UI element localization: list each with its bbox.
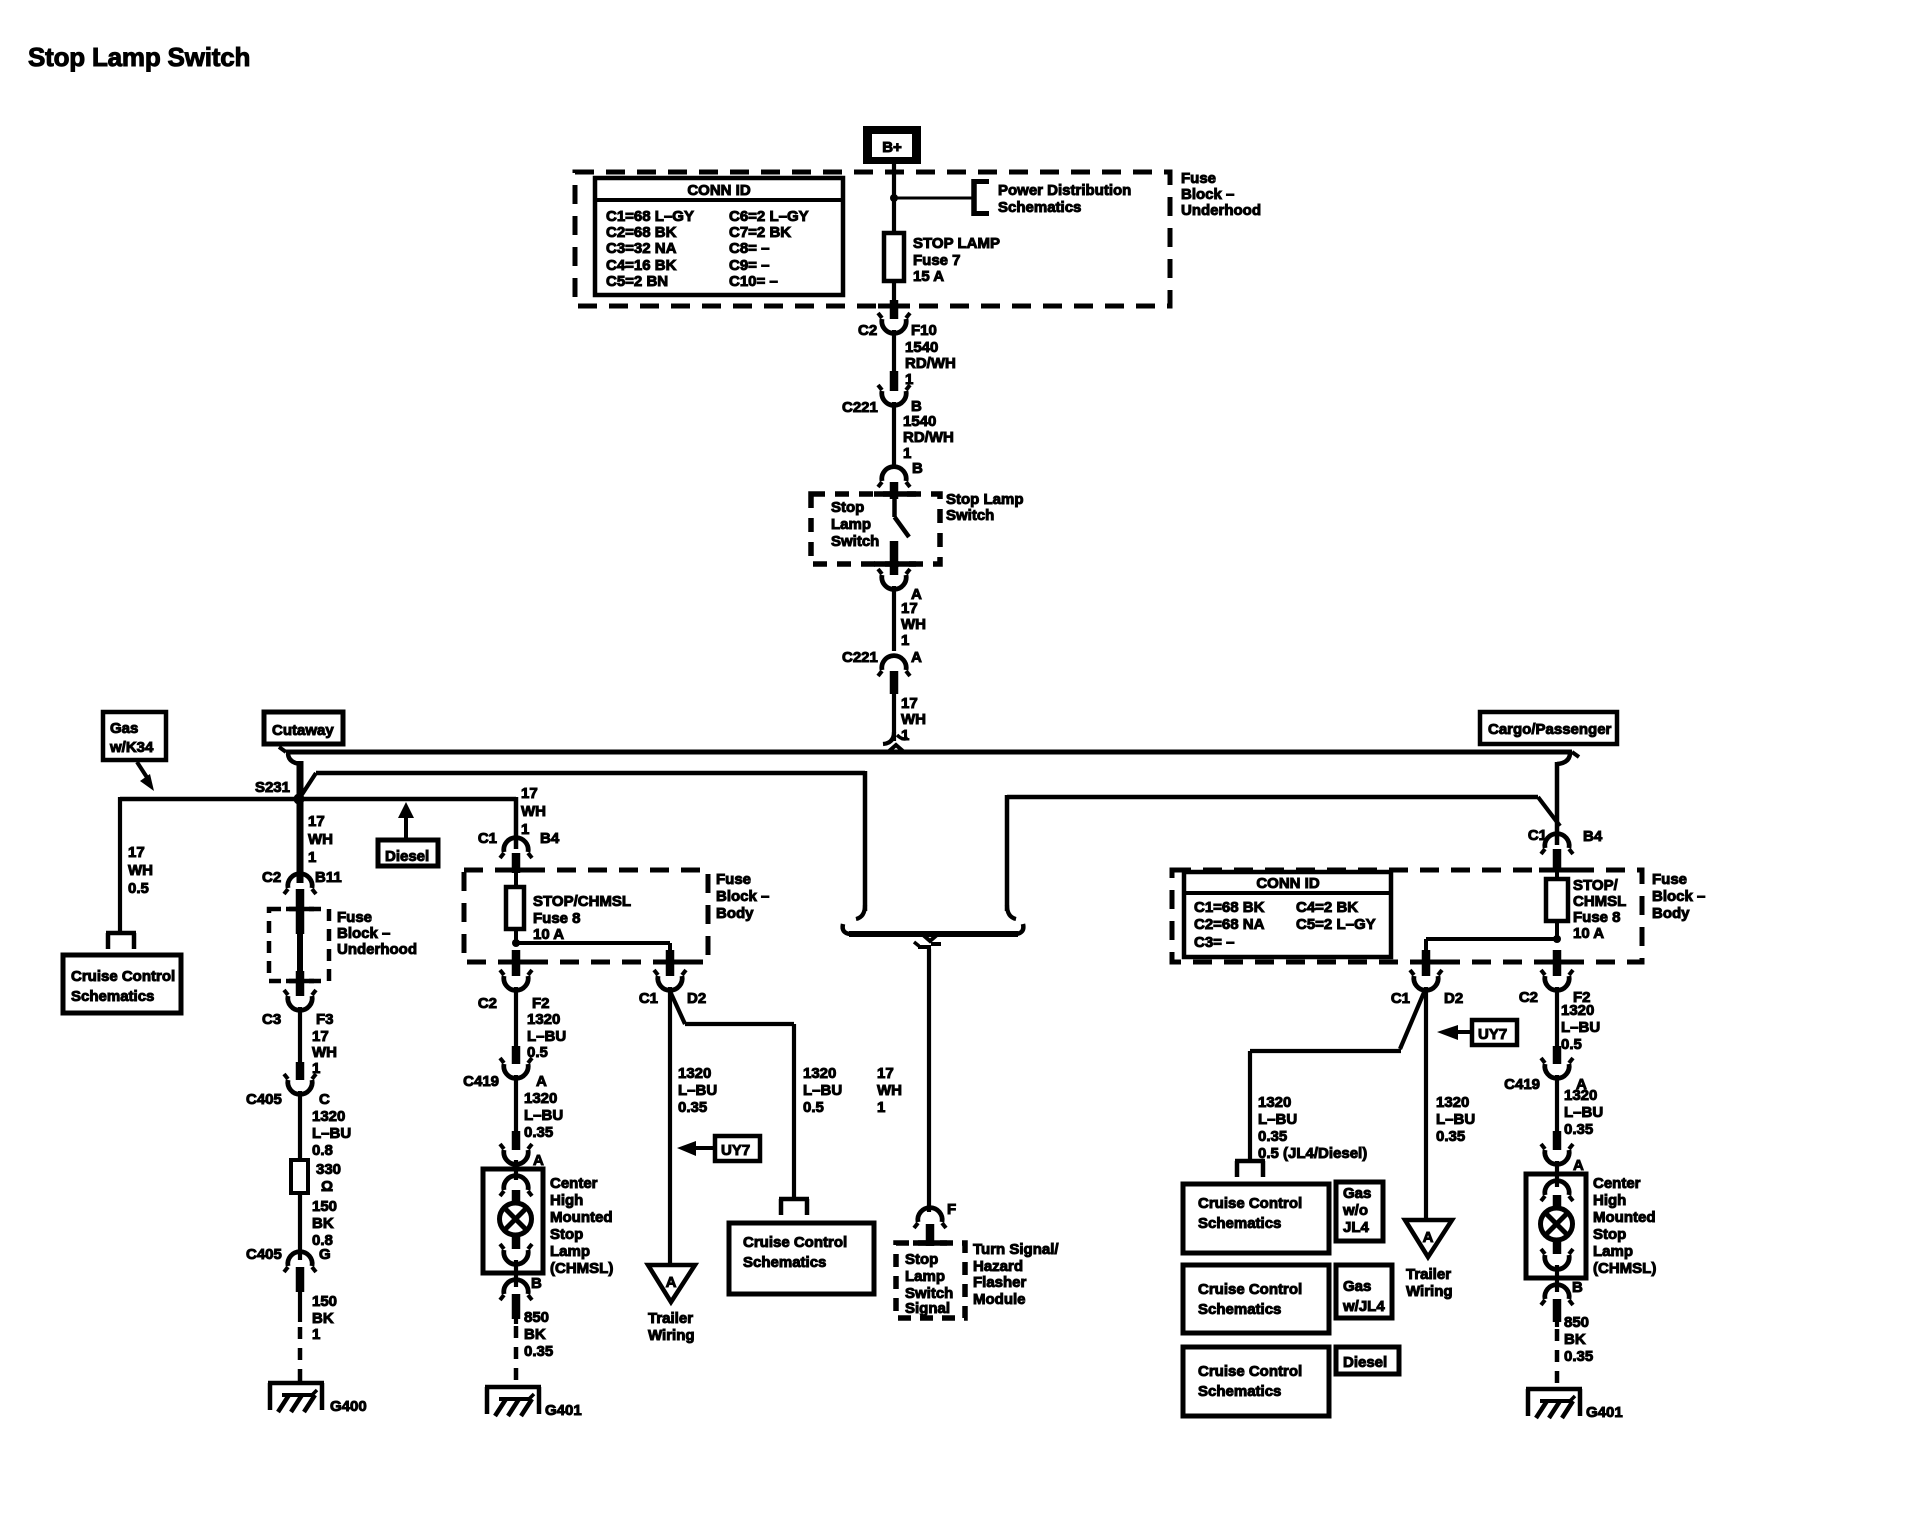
CHMSL label left xyxy=(550,1175,613,1277)
svg-text:Cruise Control: Cruise Control xyxy=(71,968,175,985)
svg-text:1: 1 xyxy=(901,632,909,649)
svg-text:CONN ID: CONN ID xyxy=(687,182,751,199)
cargo/passenger tag box xyxy=(1480,712,1617,744)
svg-text:RD/WH: RD/WH xyxy=(905,355,956,372)
svg-text:Stop: Stop xyxy=(1593,1226,1626,1243)
svg-text:L–BU: L–BU xyxy=(1436,1111,1475,1128)
svg-text:L–BU: L–BU xyxy=(1564,1104,1603,1121)
bus3 drop to splice xyxy=(1007,795,1016,919)
CHMSL pin B right xyxy=(1541,1279,1583,1322)
svg-text:G401: G401 xyxy=(545,1402,582,1419)
svg-text:1320: 1320 xyxy=(678,1065,711,1082)
fuse block body dashed box left xyxy=(464,870,708,962)
svg-text:1540: 1540 xyxy=(903,413,936,430)
connector C405 pin G xyxy=(246,1246,331,1292)
stop lamp switch signal dashed box xyxy=(896,1243,965,1318)
cutaway tag box xyxy=(264,712,343,744)
svg-text:High: High xyxy=(550,1192,583,1209)
svg-text:0.35: 0.35 xyxy=(524,1343,553,1360)
svg-text:Stop: Stop xyxy=(831,499,864,516)
wire left branch to cruise control xyxy=(120,797,153,933)
svg-text:CONN ID: CONN ID xyxy=(1256,875,1320,892)
svg-text:C2: C2 xyxy=(858,322,877,339)
connector C2 pin F2 right xyxy=(1519,950,1591,1006)
svg-text:1: 1 xyxy=(521,821,529,838)
wire 1540 RD/WH xyxy=(894,330,956,388)
cruise control reference bracket mid xyxy=(779,1199,809,1215)
svg-text:C2=68 BK: C2=68 BK xyxy=(606,224,677,241)
svg-text:WH: WH xyxy=(308,831,333,848)
svg-text:JL4: JL4 xyxy=(1343,1219,1370,1236)
svg-text:B: B xyxy=(531,1275,542,1292)
bus1 left hook xyxy=(279,747,301,764)
svg-text:Wiring: Wiring xyxy=(1406,1283,1453,1300)
svg-text:F: F xyxy=(947,1201,956,1218)
wire label 17 WH 1 at S231 xyxy=(308,813,333,866)
diesel tag box right xyxy=(1336,1347,1399,1374)
svg-text:Cruise Control: Cruise Control xyxy=(743,1234,847,1251)
svg-text:Fuse: Fuse xyxy=(337,909,372,926)
svg-text:C3: C3 xyxy=(262,1011,281,1028)
power distribution schematics reference bracket xyxy=(972,179,1131,216)
svg-text:0.35: 0.35 xyxy=(1564,1121,1593,1138)
CONN ID table (underhood) xyxy=(595,178,843,295)
svg-text:C4=16 BK: C4=16 BK xyxy=(606,257,677,274)
svg-text:G400: G400 xyxy=(330,1398,367,1415)
CHMSL lamp element left xyxy=(500,1176,533,1287)
svg-text:WH: WH xyxy=(901,711,926,728)
svg-text:A: A xyxy=(533,1152,544,1169)
wire 150 BK 1 xyxy=(300,1292,337,1343)
svg-text:Fuse: Fuse xyxy=(1652,871,1687,888)
svg-text:F2: F2 xyxy=(532,995,550,1012)
svg-text:1320: 1320 xyxy=(527,1011,560,1028)
svg-text:C2: C2 xyxy=(478,995,497,1012)
branch bus line 2 xyxy=(299,773,865,799)
fuse F7 STOP LAMP 15A xyxy=(884,233,1000,285)
svg-text:150: 150 xyxy=(312,1198,337,1215)
svg-text:BK: BK xyxy=(524,1326,546,1343)
svg-text:C: C xyxy=(319,1091,330,1108)
svg-text:S231: S231 xyxy=(255,779,290,796)
ground G401 right xyxy=(1526,1389,1623,1421)
cruise control schematics box right 3 xyxy=(1183,1347,1329,1416)
svg-text:17: 17 xyxy=(308,813,325,830)
connector C2 pin F10 xyxy=(858,300,937,339)
wire D2 diagonal right xyxy=(1250,990,1425,1051)
fuse block body label right xyxy=(1652,871,1705,922)
svg-text:C3= –: C3= – xyxy=(1194,934,1234,951)
svg-text:C4=2 BK: C4=2 BK xyxy=(1296,899,1358,916)
svg-text:1: 1 xyxy=(877,1099,885,1116)
svg-text:Fuse: Fuse xyxy=(716,871,751,888)
svg-text:1320: 1320 xyxy=(1258,1094,1291,1111)
CHMSL lamp box right xyxy=(1526,1174,1586,1278)
connector to CHMSL pin A left xyxy=(500,1131,544,1169)
turn signal hazard flasher module label xyxy=(973,1241,1059,1308)
trailer wiring label right xyxy=(1406,1266,1453,1300)
CHMSL lamp element right xyxy=(1541,1181,1574,1292)
wire to C1 B4 right xyxy=(1555,762,1560,845)
svg-text:Schematics: Schematics xyxy=(71,988,154,1005)
svg-text:Block –: Block – xyxy=(337,925,390,942)
wire hook into bus xyxy=(883,732,908,744)
svg-text:D2: D2 xyxy=(1444,990,1463,1007)
splice merge bar xyxy=(843,924,1024,947)
svg-text:Schematics: Schematics xyxy=(1198,1301,1281,1318)
wire fuse to junction left xyxy=(514,929,518,943)
svg-text:Module: Module xyxy=(973,1291,1026,1308)
svg-text:17: 17 xyxy=(312,1028,329,1045)
title xyxy=(28,42,250,72)
flasher pin F xyxy=(914,1201,956,1246)
svg-text:B4: B4 xyxy=(1583,828,1603,845)
stop lamp switch signal label xyxy=(905,1251,953,1317)
svg-text:C6=2 L–GY: C6=2 L–GY xyxy=(729,208,809,225)
svg-text:C2: C2 xyxy=(262,869,281,886)
svg-text:B11: B11 xyxy=(315,869,342,886)
switch terminal B xyxy=(878,460,923,499)
svg-text:Hazard: Hazard xyxy=(973,1258,1023,1275)
fuse F8 STOP/CHMSL left xyxy=(506,887,631,943)
svg-text:Block –: Block – xyxy=(1181,186,1234,203)
svg-text:WH: WH xyxy=(312,1044,337,1061)
svg-text:10 A: 10 A xyxy=(1573,925,1604,942)
svg-text:Schematics: Schematics xyxy=(743,1254,826,1271)
svg-text:Fuse 7: Fuse 7 xyxy=(913,252,961,269)
svg-text:UY7: UY7 xyxy=(721,1142,750,1159)
svg-text:STOP/CHMSL: STOP/CHMSL xyxy=(533,893,631,910)
svg-text:C8= –: C8= – xyxy=(729,240,769,257)
svg-text:1540: 1540 xyxy=(905,339,938,356)
wire S231 horizontal xyxy=(120,797,516,802)
connector C2 pin B11 xyxy=(262,869,342,934)
svg-text:Schematics: Schematics xyxy=(1198,1215,1281,1232)
switch terminal A xyxy=(878,541,922,603)
wire 17 WH 1 xyxy=(300,1007,337,1077)
svg-text:WH: WH xyxy=(901,616,926,633)
wire S231 thick vertical xyxy=(297,761,304,883)
wire 17 WH 1 to flasher xyxy=(877,949,929,1212)
CHMSL label right xyxy=(1593,1175,1656,1277)
svg-text:Lamp: Lamp xyxy=(550,1243,590,1260)
connector C419 pin A left xyxy=(463,1046,547,1090)
wire 850 BK 0.35 left xyxy=(516,1309,553,1360)
svg-text:L–BU: L–BU xyxy=(803,1082,842,1099)
svg-text:C1: C1 xyxy=(478,830,497,847)
wire 1320 L-BU 0.35 left xyxy=(516,1075,563,1141)
svg-text:STOP/: STOP/ xyxy=(1573,877,1619,894)
gas w/o JL4 tag box xyxy=(1336,1182,1383,1241)
gas w/K34 tag box xyxy=(103,712,166,760)
wire dashed to ground G401 right xyxy=(1555,1329,1560,1386)
svg-text:17: 17 xyxy=(901,600,918,617)
svg-text:C221: C221 xyxy=(842,649,878,666)
fuse block underhood label 2 xyxy=(337,909,417,958)
CONN ID table (body) xyxy=(1184,872,1391,957)
svg-text:1320: 1320 xyxy=(312,1108,345,1125)
svg-text:Underhood: Underhood xyxy=(337,941,417,958)
svg-text:L–BU: L–BU xyxy=(1258,1111,1297,1128)
connector C221 pin A xyxy=(842,649,922,694)
branch bus line 3 xyxy=(1007,797,1560,826)
ground G401 left xyxy=(485,1387,582,1419)
fuse block underhood small dashed box xyxy=(269,909,329,981)
connector C2 pin F2 left xyxy=(478,950,550,1012)
svg-text:Wiring: Wiring xyxy=(648,1327,695,1344)
svg-text:A: A xyxy=(1423,1229,1434,1246)
svg-text:0.35: 0.35 xyxy=(678,1099,707,1116)
svg-text:C2=68 NA: C2=68 NA xyxy=(1194,916,1265,933)
svg-text:Cutaway: Cutaway xyxy=(272,722,334,739)
svg-text:High: High xyxy=(1593,1192,1626,1209)
wire to C1 B4 left xyxy=(516,785,546,849)
svg-text:0.35: 0.35 xyxy=(1436,1128,1465,1145)
svg-text:850: 850 xyxy=(1564,1314,1589,1331)
svg-text:0.5: 0.5 xyxy=(1561,1036,1582,1053)
svg-text:0.35: 0.35 xyxy=(1564,1348,1593,1365)
svg-text:G401: G401 xyxy=(1586,1404,1623,1421)
wire dashed to ground xyxy=(298,1327,303,1382)
svg-text:Signal: Signal xyxy=(905,1300,950,1317)
svg-text:0.35: 0.35 xyxy=(1258,1128,1287,1145)
svg-text:1320: 1320 xyxy=(803,1065,836,1082)
svg-text:Diesel: Diesel xyxy=(1343,1354,1387,1371)
svg-text:Trailer: Trailer xyxy=(1406,1266,1451,1283)
svg-text:Block –: Block – xyxy=(716,888,769,905)
svg-text:A: A xyxy=(536,1073,547,1090)
svg-text:A: A xyxy=(911,649,922,666)
svg-text:330: 330 xyxy=(316,1161,341,1178)
svg-text:Lamp: Lamp xyxy=(1593,1243,1633,1260)
svg-text:A: A xyxy=(666,1274,677,1291)
wire 1540 RD/WH to switch xyxy=(894,402,954,468)
connector C419 pin A right xyxy=(1504,1046,1587,1093)
svg-text:B: B xyxy=(1572,1279,1583,1296)
svg-text:Cruise Control: Cruise Control xyxy=(1198,1195,1302,1212)
wire 17 WH from switch xyxy=(894,586,926,651)
svg-text:(CHMSL): (CHMSL) xyxy=(550,1260,613,1277)
svg-text:Stop Lamp Switch: Stop Lamp Switch xyxy=(28,42,250,72)
svg-text:Flasher: Flasher xyxy=(973,1274,1027,1291)
svg-text:1: 1 xyxy=(903,445,911,462)
svg-text:UY7: UY7 xyxy=(1478,1026,1507,1043)
resistor 330 ohm xyxy=(291,1160,341,1195)
wire drop to C1 D2 left xyxy=(668,943,672,952)
svg-text:Gas: Gas xyxy=(110,720,138,737)
gas w/K34 arrow xyxy=(137,762,154,791)
svg-text:BK: BK xyxy=(312,1215,334,1232)
svg-text:Mounted: Mounted xyxy=(550,1209,612,1226)
trailer wiring triangle right xyxy=(1405,1220,1452,1257)
connector C405 pin C xyxy=(246,1062,330,1108)
cruise control reference bracket left xyxy=(106,933,136,949)
svg-text:C2: C2 xyxy=(1519,989,1538,1006)
svg-text:C5=2 BN: C5=2 BN xyxy=(606,273,668,290)
svg-text:Fuse 8: Fuse 8 xyxy=(533,910,581,927)
wire D2 diagonal to cruise branch xyxy=(669,989,794,1024)
diesel tag box with arrow xyxy=(378,802,438,866)
svg-text:Underhood: Underhood xyxy=(1181,202,1261,219)
svg-text:Trailer: Trailer xyxy=(648,1310,693,1327)
svg-text:Stop Lamp: Stop Lamp xyxy=(946,491,1024,508)
svg-text:STOP LAMP: STOP LAMP xyxy=(913,235,1000,252)
CHMSL pin B left xyxy=(500,1275,542,1319)
svg-text:Diesel: Diesel xyxy=(385,848,429,865)
svg-text:10 A: 10 A xyxy=(533,926,564,943)
svg-text:Stop: Stop xyxy=(905,1251,938,1268)
wire 850 BK 0.35 right xyxy=(1557,1314,1593,1365)
svg-text:150: 150 xyxy=(312,1293,337,1310)
wire dashed to ground G401 left xyxy=(514,1326,519,1384)
svg-text:Switch: Switch xyxy=(831,533,879,550)
switch blade xyxy=(895,499,910,537)
svg-text:C419: C419 xyxy=(1504,1076,1540,1093)
trailer wiring label left xyxy=(648,1310,695,1344)
splice S231 xyxy=(255,779,305,805)
svg-text:C1=68 L–GY: C1=68 L–GY xyxy=(606,208,694,225)
connector to CHMSL pin A right xyxy=(1541,1131,1584,1174)
svg-text:C3=32 NA: C3=32 NA xyxy=(606,240,677,257)
svg-text:Schematics: Schematics xyxy=(998,199,1081,216)
svg-text:1320: 1320 xyxy=(524,1090,557,1107)
svg-text:L–BU: L–BU xyxy=(678,1082,717,1099)
svg-text:Power Distribution: Power Distribution xyxy=(998,182,1131,199)
svg-text:C9= –: C9= – xyxy=(729,257,769,274)
cruise control schematics box right 2 xyxy=(1183,1265,1329,1333)
svg-text:Gas: Gas xyxy=(1343,1185,1371,1202)
connector C1 pin B4 left xyxy=(478,830,560,887)
wire B+ to fuse xyxy=(892,164,896,233)
wire 1320 L-BU 0.35 to trailer left xyxy=(670,987,717,1263)
wire 1320 L-BU 0.35 to trailer right xyxy=(1426,987,1475,1219)
svg-text:17: 17 xyxy=(877,1065,894,1082)
svg-text:C419: C419 xyxy=(463,1073,499,1090)
svg-text:L–BU: L–BU xyxy=(1561,1019,1600,1036)
svg-text:Ω: Ω xyxy=(321,1178,333,1195)
svg-text:1: 1 xyxy=(901,727,909,744)
svg-text:F10: F10 xyxy=(911,322,937,339)
cruise control reference bracket right xyxy=(1235,1161,1265,1177)
gas w/JL4 tag box xyxy=(1336,1265,1392,1318)
svg-text:C405: C405 xyxy=(246,1091,282,1108)
svg-text:Cruise Control: Cruise Control xyxy=(1198,1281,1302,1298)
wire fuse to C2 xyxy=(892,281,896,301)
svg-text:A: A xyxy=(1573,1157,1584,1174)
svg-text:B4: B4 xyxy=(540,830,560,847)
svg-text:Cargo/Passenger: Cargo/Passenger xyxy=(1488,721,1612,738)
svg-text:Gas: Gas xyxy=(1343,1278,1371,1295)
svg-text:Block –: Block – xyxy=(1652,888,1705,905)
svg-text:Switch: Switch xyxy=(946,507,994,524)
svg-text:15 A: 15 A xyxy=(913,268,944,285)
junction below fuse left xyxy=(512,939,670,947)
connector C1 pin D2 left xyxy=(639,950,706,1007)
wire 1320 L-BU 0.8 xyxy=(300,1091,351,1160)
svg-text:RD/WH: RD/WH xyxy=(903,429,954,446)
svg-text:BK: BK xyxy=(312,1310,334,1327)
branch bus line 1 xyxy=(286,745,1572,752)
connector C1 pin D2 right xyxy=(1391,950,1463,1007)
svg-text:BK: BK xyxy=(1564,1331,1586,1348)
svg-text:(CHMSL): (CHMSL) xyxy=(1593,1260,1656,1277)
svg-text:C7=2 BK: C7=2 BK xyxy=(729,224,791,241)
svg-text:G: G xyxy=(319,1246,331,1263)
wire 150 BK 0.8 xyxy=(300,1193,337,1260)
junction below fuse right xyxy=(1426,935,1561,943)
svg-text:Center: Center xyxy=(1593,1175,1641,1192)
svg-text:w/JL4: w/JL4 xyxy=(1342,1298,1385,1315)
svg-text:1320: 1320 xyxy=(1561,1002,1594,1019)
stop lamp switch label right xyxy=(946,491,1024,524)
svg-text:Turn Signal/: Turn Signal/ xyxy=(973,1241,1059,1258)
svg-text:L–BU: L–BU xyxy=(312,1125,351,1142)
svg-text:17: 17 xyxy=(128,844,145,861)
svg-text:B+: B+ xyxy=(882,139,902,156)
svg-text:Body: Body xyxy=(716,905,754,922)
svg-text:w/o: w/o xyxy=(1342,1202,1368,1219)
svg-text:C1: C1 xyxy=(639,990,658,1007)
svg-text:1320: 1320 xyxy=(1564,1087,1597,1104)
svg-text:0.8: 0.8 xyxy=(312,1142,333,1159)
wire 1320 L-BU 0.5 to cruise xyxy=(794,1024,842,1198)
svg-text:1: 1 xyxy=(312,1326,320,1343)
svg-text:850: 850 xyxy=(524,1309,549,1326)
svg-text:1320: 1320 xyxy=(1436,1094,1469,1111)
svg-text:Body: Body xyxy=(1652,905,1690,922)
wire 1320 L-BU 0.35 right xyxy=(1557,1075,1603,1138)
wire drop to C1 D2 right xyxy=(1424,939,1428,952)
UY7 tag box right xyxy=(1437,1020,1517,1045)
svg-text:WH: WH xyxy=(877,1082,902,1099)
svg-text:C10= –: C10= – xyxy=(729,273,778,290)
svg-text:WH: WH xyxy=(128,862,153,879)
node junction to power distribution xyxy=(890,194,972,202)
svg-text:Fuse: Fuse xyxy=(1181,170,1216,187)
connector C3 pin F3 xyxy=(262,971,334,1028)
svg-text:Cruise Control: Cruise Control xyxy=(1198,1363,1302,1380)
svg-text:Fuse 8: Fuse 8 xyxy=(1573,909,1621,926)
ground G400 xyxy=(268,1383,367,1415)
stop lamp switch dashed box xyxy=(811,494,940,564)
wire 1320 L-BU to cruise right xyxy=(1250,1051,1367,1162)
connector C1 pin B4 right xyxy=(1528,827,1603,879)
cruise control schematics box right 1 xyxy=(1183,1184,1329,1253)
svg-text:F3: F3 xyxy=(316,1011,334,1028)
wire into CHMSL left xyxy=(514,1160,518,1180)
svg-text:17: 17 xyxy=(521,785,538,802)
battery B+ terminal xyxy=(863,126,921,164)
fuse F8 STOP/CHMSL right xyxy=(1546,877,1626,942)
svg-text:C405: C405 xyxy=(246,1246,282,1263)
wire fuse to junction right xyxy=(1555,921,1559,939)
svg-text:0.5: 0.5 xyxy=(128,880,149,897)
wire 17 WH to splice xyxy=(894,694,926,744)
svg-text:C221: C221 xyxy=(842,399,878,416)
cruise control schematics box left xyxy=(63,955,181,1013)
svg-text:C1: C1 xyxy=(1391,990,1410,1007)
wire inside underhood block xyxy=(297,930,303,973)
trailer wiring triangle left xyxy=(648,1265,695,1302)
wire into CHMSL right xyxy=(1555,1161,1559,1187)
bus1 right hook xyxy=(1557,752,1579,764)
svg-text:C1=68 BK: C1=68 BK xyxy=(1194,899,1265,916)
svg-text:D2: D2 xyxy=(687,990,706,1007)
svg-text:L–BU: L–BU xyxy=(527,1028,566,1045)
UY7 tag box left xyxy=(677,1136,760,1161)
svg-text:0.5: 0.5 xyxy=(803,1099,824,1116)
CHMSL lamp box left xyxy=(483,1169,543,1273)
